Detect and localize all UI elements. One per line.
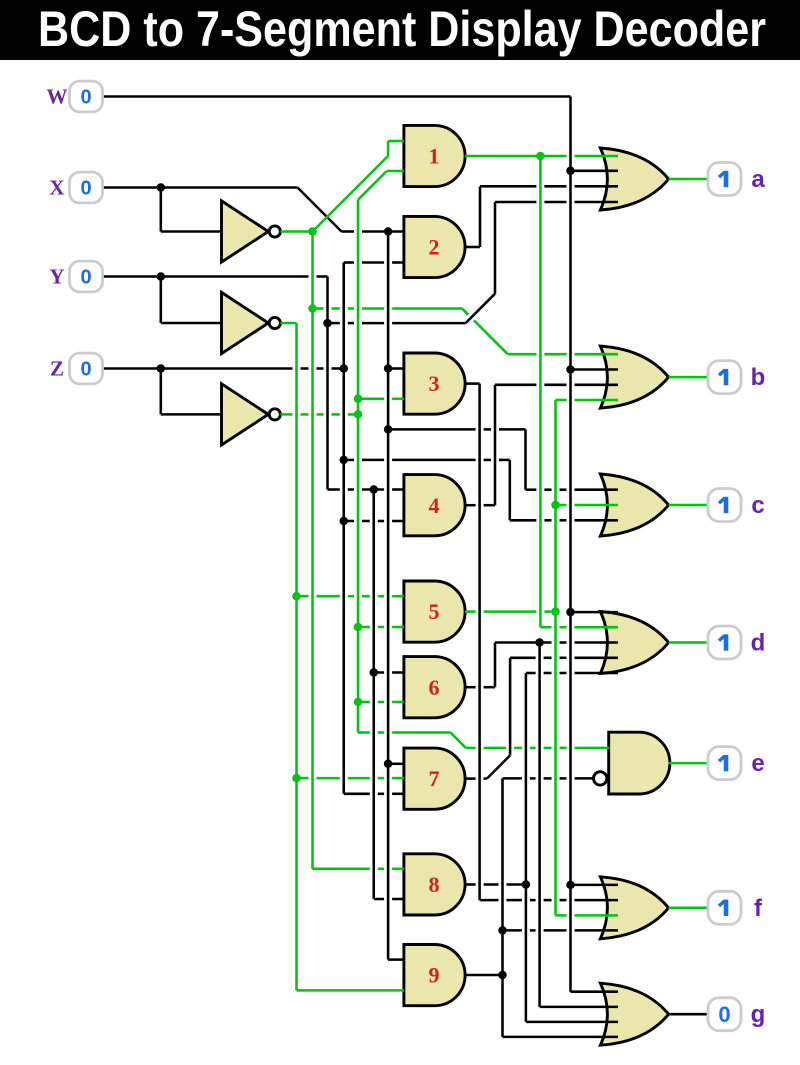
junction node at (556,612) bbox=[551, 607, 560, 616]
wire: Z inverter input stub bbox=[161, 413, 222, 416]
wire: Y inverter input stub bbox=[161, 322, 222, 325]
wire: AND7 output riser bbox=[509, 658, 512, 756]
wire: net X' branch to OR-b bbox=[313, 307, 463, 310]
svg-text:b: b bbox=[751, 364, 766, 391]
junction node at (570,370) bbox=[566, 365, 575, 374]
wire: net Z' wire to gate E bbox=[358, 731, 451, 734]
wire: OR-c.in1 wire (X) bbox=[526, 488, 619, 491]
svg-text:e: e bbox=[751, 750, 764, 777]
svg-text:0: 0 bbox=[80, 359, 91, 381]
junction node at (161,368) bbox=[157, 364, 166, 373]
wire: input Y wire bbox=[103, 275, 328, 278]
wire: net Y diagonal to riser bbox=[466, 294, 495, 323]
wire: gate E in1 wire bbox=[466, 747, 609, 750]
AND gate 8 bbox=[404, 854, 465, 915]
wire: OR-d.in4 wire (AND7) bbox=[510, 657, 618, 660]
junction node at (344,368) bbox=[340, 364, 349, 373]
output pin c bbox=[708, 489, 765, 522]
wire: Z inverter input branch bbox=[160, 369, 163, 415]
wire: AND4.in2 wire bbox=[344, 520, 404, 523]
wire: OR-c.in3 wire (Z) bbox=[510, 519, 618, 522]
wire: AND8 output wire bbox=[465, 883, 526, 886]
inverter for X (NOT gate) bbox=[222, 201, 281, 262]
wire: input Z wire bbox=[103, 367, 344, 370]
wire: input X wire diagonal bbox=[298, 188, 342, 232]
wire: AND8 output riser bbox=[525, 673, 528, 1022]
wire: net Z' diagonal to gate E bbox=[451, 733, 466, 748]
wire: net X' vertical bbox=[311, 232, 314, 869]
wire: AND1 output riser bbox=[539, 156, 542, 627]
svg-text:c: c bbox=[751, 492, 764, 519]
wire: net Z vertical bbox=[342, 263, 345, 794]
wire: AND9.in1 wire bbox=[388, 958, 404, 961]
wire: input X wire bbox=[103, 186, 298, 189]
svg-text:Z: Z bbox=[50, 357, 64, 381]
output wire for segment a bbox=[669, 178, 709, 181]
svg-text:1: 1 bbox=[429, 144, 440, 169]
output pin f bbox=[708, 891, 763, 924]
junction node at (556,505) bbox=[551, 501, 560, 510]
title banner bbox=[0, 0, 800, 60]
wire: net Z' vertical bbox=[357, 200, 360, 733]
OR gate for segment c bbox=[600, 474, 668, 536]
junction node at (358,627) bbox=[354, 623, 363, 632]
OR gate for segment g bbox=[600, 983, 668, 1045]
junction node at (344,460) bbox=[340, 456, 349, 465]
junction node at (296,596) bbox=[292, 592, 301, 601]
wire: OR-d.in1 wire (W) bbox=[571, 611, 619, 614]
wire: net X riser bbox=[524, 429, 527, 489]
output wire for segment f bbox=[669, 907, 709, 910]
output pin g bbox=[708, 998, 765, 1031]
wire: OR-g.in3 wire (AND8) bbox=[526, 1021, 618, 1024]
wire: Z' inverter output wire bbox=[280, 413, 358, 416]
junction node at (374,672) bbox=[370, 668, 379, 677]
junction node at (161,188) bbox=[157, 183, 166, 192]
OR gate for segment f bbox=[600, 877, 668, 939]
AND gate 9 bbox=[404, 945, 465, 1006]
wire: OR-b.in3 wire (AND4) bbox=[495, 384, 618, 387]
junction node at (570,171) bbox=[566, 167, 575, 176]
wire: net W vertical bbox=[569, 97, 572, 992]
wire: OR-d.in2 wire (AND1) bbox=[540, 626, 618, 629]
wire: X' inverter output stub bbox=[280, 230, 312, 233]
junction node at (312,308) bbox=[308, 304, 317, 313]
wire: AND7.in1 wire bbox=[388, 763, 404, 766]
svg-text:0: 0 bbox=[80, 178, 91, 200]
svg-text:5: 5 bbox=[429, 599, 440, 624]
wire: gate E in2 wire bbox=[503, 777, 594, 780]
wire: net Z' diagonal to AND1.in2 bbox=[358, 171, 387, 200]
output wire for segment g bbox=[669, 1013, 709, 1016]
svg-text:6: 6 bbox=[429, 675, 440, 700]
wire: AND6 branch riser bbox=[538, 643, 541, 1007]
svg-text:3: 3 bbox=[429, 371, 440, 396]
junction node at (161,276) bbox=[157, 272, 166, 281]
wire: net Z branch wire bbox=[344, 459, 510, 462]
output pin e bbox=[708, 747, 765, 780]
wire: X wire to AND2.in1 bbox=[342, 230, 404, 233]
junction node at (374,490) bbox=[370, 485, 379, 494]
output pin a bbox=[708, 163, 765, 196]
wire: X inverter input stub bbox=[161, 230, 222, 233]
junction node at (328,323) bbox=[323, 319, 332, 328]
wire: OR-d.in5 wire (AND8) bbox=[526, 672, 618, 675]
wire: AND7.in2 wire bbox=[297, 777, 404, 780]
wire: OR-f.in3 wire (AND5) bbox=[556, 914, 619, 917]
svg-text:7: 7 bbox=[429, 766, 440, 791]
OR gate for segment d bbox=[600, 612, 668, 674]
wire: AND2 output wire bbox=[465, 246, 480, 249]
wire: OR-f.in1 wire (W) bbox=[571, 884, 619, 887]
wire: OR-b.in1 wire (X') bbox=[508, 353, 618, 356]
wire: AND5.in1 wire bbox=[297, 595, 404, 598]
inverter for Z (NOT gate) bbox=[222, 384, 281, 445]
junction node at (540,642) bbox=[535, 638, 544, 647]
wire: AND4 output wire bbox=[465, 504, 495, 507]
wire: Y inverter input branch bbox=[160, 277, 163, 324]
output wire for segment b bbox=[669, 376, 709, 379]
svg-text:2: 2 bbox=[429, 235, 440, 260]
wire: AND9 output riser bbox=[501, 778, 504, 1037]
output pin b bbox=[708, 361, 765, 394]
wire: AND6.in1 wire bbox=[374, 671, 404, 674]
junction node at (358,702) bbox=[354, 698, 363, 707]
svg-text:0: 0 bbox=[718, 1002, 730, 1027]
wire: AND6 output wire bbox=[465, 686, 495, 689]
junction node at (344,521) bbox=[340, 517, 349, 526]
AND gate 5 bbox=[404, 581, 465, 642]
wire: OR-f.in2 wire (AND3) bbox=[480, 899, 618, 902]
junction node at (570,612) bbox=[566, 608, 575, 617]
svg-text:a: a bbox=[751, 166, 765, 193]
wire: AND5.in2 wire bbox=[358, 626, 404, 629]
svg-text:0: 0 bbox=[80, 87, 91, 109]
wire: node Y riser to OR-a bbox=[494, 202, 497, 294]
wire: net Z riser bbox=[509, 460, 512, 520]
wire: OR-b.in4 wire (AND5) bbox=[556, 399, 619, 402]
svg-text:W: W bbox=[47, 85, 68, 109]
wire: AND6 output riser bbox=[494, 643, 497, 688]
AND gate 7 bbox=[404, 748, 465, 809]
junction node at (358,399) bbox=[354, 395, 363, 404]
input pin X bbox=[49, 172, 102, 203]
wire: AND4 output riser bbox=[494, 385, 497, 506]
wire: OR-g.in1 wire (W) bbox=[571, 990, 619, 993]
input pin Y bbox=[49, 261, 102, 292]
svg-text:X: X bbox=[49, 176, 64, 200]
wire: net Y vertical bbox=[326, 277, 329, 490]
wire: net X branch wire bbox=[388, 428, 525, 431]
wire: OR-g.in2 wire (AND6) bbox=[540, 1006, 618, 1009]
junction node at (358,414) bbox=[354, 410, 363, 419]
junction node at (388,232) bbox=[384, 227, 393, 236]
wire: AND7.in3 wire bbox=[344, 793, 404, 796]
AND gate 4 bbox=[404, 475, 465, 536]
svg-text:d: d bbox=[751, 630, 766, 657]
AND gate 2 bbox=[404, 216, 465, 277]
AND gate 3 bbox=[404, 353, 465, 414]
wire: AND1 output wire bbox=[465, 155, 618, 158]
wire: AND3.in1 wire bbox=[388, 367, 404, 370]
svg-text:Y: Y bbox=[49, 265, 64, 289]
svg-text:g: g bbox=[751, 1001, 766, 1028]
OR gate for segment b bbox=[600, 346, 668, 408]
wire: OR-d.in3 wire (AND6) bbox=[495, 641, 618, 644]
wire: AND8.in1 wire bbox=[313, 868, 404, 871]
output wire for segment e bbox=[669, 762, 709, 765]
junction node at (502,930) bbox=[498, 926, 507, 935]
AND gate 6 bbox=[404, 657, 465, 718]
wire: AND1.in1 wire bbox=[388, 140, 404, 143]
wire: net X vertical bbox=[387, 232, 390, 960]
wire: AND9.in2 wire bbox=[297, 989, 404, 992]
wire: AND6.in2 wire bbox=[358, 701, 404, 704]
wire: input W wire bbox=[103, 95, 571, 98]
junction node at (540,156) bbox=[536, 152, 545, 161]
input pin Z bbox=[50, 353, 103, 384]
wire: net Y' vertical bbox=[295, 323, 298, 990]
AND gate 1 bbox=[404, 125, 465, 186]
wire: net Y lower vertical bbox=[372, 490, 375, 900]
wire: AND5 output riser bbox=[554, 400, 557, 915]
wire: OR-g.in4 wire (AND9) bbox=[503, 1036, 619, 1039]
wire: AND3 output wire bbox=[465, 382, 480, 385]
wire: AND5 output wire bbox=[465, 610, 556, 613]
wire: OR-f.in4 wire (AND9) bbox=[503, 929, 619, 932]
input pin W bbox=[47, 81, 103, 112]
svg-text:9: 9 bbox=[429, 963, 440, 988]
output wire for segment c bbox=[669, 504, 709, 507]
wire: AND3 output riser bbox=[478, 384, 481, 901]
wire: OR-a.in2 wire (W) bbox=[571, 170, 619, 173]
junction node at (502,975) bbox=[498, 971, 507, 980]
junction node at (526,884) bbox=[522, 880, 531, 889]
junction node at (388,429) bbox=[384, 425, 393, 434]
junction node at (296,778) bbox=[292, 774, 301, 783]
inverter for Y (NOT gate) bbox=[222, 292, 281, 353]
wire: AND7 output diagonal bbox=[487, 755, 510, 778]
svg-text:BCD to 7-Segment Display Decod: BCD to 7-Segment Display Decoder bbox=[38, 1, 766, 57]
junction node at (388,764) bbox=[384, 760, 393, 769]
OR gate for segment a bbox=[600, 148, 668, 210]
wire: net X' diagonal to AND1.in1 bbox=[313, 156, 389, 232]
wire: AND7 output wire bbox=[465, 777, 487, 780]
svg-text:0: 0 bbox=[80, 267, 91, 289]
wire: AND9 output wire bbox=[465, 974, 503, 977]
svg-text:f: f bbox=[754, 895, 763, 922]
wire: AND2.in2 wire bbox=[344, 261, 404, 264]
gate E: AND with inverted lower input (segment e) bbox=[594, 732, 670, 794]
wire: AND8.in2 wire bbox=[374, 898, 404, 901]
junction node at (312,232) bbox=[308, 227, 317, 236]
wire: net X' diagonal to OR-b.in1 bbox=[462, 309, 508, 355]
wire: AND1.in1 riser seg bbox=[387, 141, 390, 156]
wire: OR-c.in2 wire (AND5) bbox=[556, 504, 619, 507]
output pin d bbox=[708, 626, 765, 659]
wire: X inverter input branch bbox=[160, 188, 163, 232]
wire: AND3.in2 wire bbox=[358, 398, 404, 401]
wire: Y' inverter output stub bbox=[280, 322, 296, 325]
output wire for segment d bbox=[669, 641, 709, 644]
wire: OR-a.in3 wire (AND2) bbox=[480, 185, 618, 188]
junction node at (388,368) bbox=[384, 364, 393, 373]
svg-text:4: 4 bbox=[429, 493, 440, 518]
wire: AND4.in1 wire bbox=[328, 488, 404, 491]
wire: OR-a.in4 wire (Y) bbox=[495, 201, 618, 204]
wire: AND2 output riser bbox=[479, 187, 482, 248]
junction node at (570,885) bbox=[566, 881, 575, 890]
wire: net Y branch to OR-a bbox=[328, 322, 466, 325]
wire: OR-b.in2 wire (W) bbox=[571, 368, 619, 371]
svg-text:8: 8 bbox=[429, 872, 440, 897]
wire: AND1.in2 wire bbox=[387, 170, 404, 173]
